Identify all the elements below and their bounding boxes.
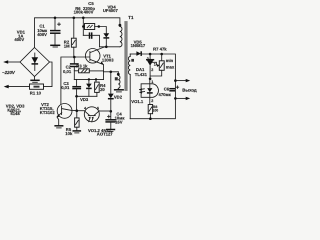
svg-text:1: 1 bbox=[151, 80, 153, 84]
svg-text:VD2: VD2 bbox=[114, 95, 123, 100]
svg-text:TL431: TL431 bbox=[135, 72, 148, 77]
svg-text:2: 2 bbox=[151, 99, 153, 103]
svg-text:1N5817: 1N5817 bbox=[131, 43, 146, 48]
svg-text:3: 3 bbox=[147, 57, 149, 61]
svg-text:T1: T1 bbox=[128, 15, 134, 20]
svg-text:VD3: VD3 bbox=[80, 97, 89, 102]
svg-text:R7 47k: R7 47k bbox=[153, 46, 167, 51]
svg-text:1: 1 bbox=[154, 62, 156, 66]
svg-text:C6: C6 bbox=[164, 87, 170, 92]
svg-text:KT3102: KT3102 bbox=[40, 110, 56, 115]
svg-text:400V: 400V bbox=[84, 10, 94, 15]
svg-text:AOT127: AOT127 bbox=[97, 132, 113, 137]
svg-text:VO1.1: VO1.1 bbox=[131, 99, 144, 104]
svg-text:0,01: 0,01 bbox=[61, 85, 70, 90]
svg-text:100k: 100k bbox=[74, 10, 84, 15]
svg-text:R3 1k: R3 1k bbox=[76, 64, 88, 69]
svg-text:20: 20 bbox=[100, 87, 105, 92]
svg-text:R1 10: R1 10 bbox=[30, 91, 42, 96]
svg-text:UF4007: UF4007 bbox=[103, 8, 119, 13]
svg-text:400V: 400V bbox=[37, 32, 47, 37]
svg-text:13003: 13003 bbox=[102, 58, 114, 63]
svg-text:400V: 400V bbox=[14, 37, 24, 42]
svg-text:0,01: 0,01 bbox=[63, 69, 72, 74]
svg-text:4148: 4148 bbox=[10, 111, 20, 116]
svg-text:16V: 16V bbox=[115, 120, 123, 125]
svg-text:max: max bbox=[166, 65, 175, 70]
svg-text:10k: 10k bbox=[65, 131, 73, 136]
svg-text:min: min bbox=[166, 58, 174, 63]
svg-text:1M: 1M bbox=[64, 43, 70, 48]
svg-text:100: 100 bbox=[152, 109, 158, 113]
svg-text:5: 5 bbox=[97, 107, 99, 111]
svg-text:470мк: 470мк bbox=[159, 92, 172, 97]
svg-text:~220V: ~220V bbox=[2, 70, 16, 75]
svg-text:Выход: Выход bbox=[182, 88, 197, 93]
svg-text:2: 2 bbox=[151, 68, 153, 72]
